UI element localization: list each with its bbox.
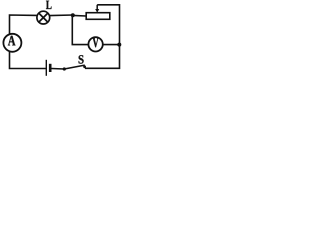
ammeter A [3, 34, 21, 52]
wire switch pivot to battery [52, 68, 65, 71]
label S [79, 55, 84, 63]
wire top-left: left vertical upper segment and top wire to lamp [10, 15, 38, 34]
battery cell: short thick negative plate [49, 64, 52, 72]
junction node: voltmeter to right vertical [117, 43, 121, 47]
wire voltmeter branch: down from junction then right [72, 15, 88, 44]
battery cell: long thin positive plate [45, 60, 47, 76]
lamp L [37, 11, 50, 24]
wire battery to bottom-left corner and left vertical lower segment [10, 52, 47, 69]
wire voltmeter to right vertical [103, 44, 120, 46]
wire junction to rheostat left terminal [73, 14, 86, 17]
switch S [63, 65, 86, 71]
voltmeter V [88, 37, 102, 51]
wire slider to top-right corner and right vertical [97, 5, 119, 45]
wire lamp to junction A [50, 14, 73, 17]
junction node: lamp/rheostat/voltmeter tap [71, 13, 75, 17]
rheostat R (rectangle body) [86, 13, 110, 20]
wire right vertical lower segment and bottom wire to switch [85, 45, 120, 69]
label L [46, 1, 52, 9]
rheostat slider arrow [95, 5, 99, 13]
